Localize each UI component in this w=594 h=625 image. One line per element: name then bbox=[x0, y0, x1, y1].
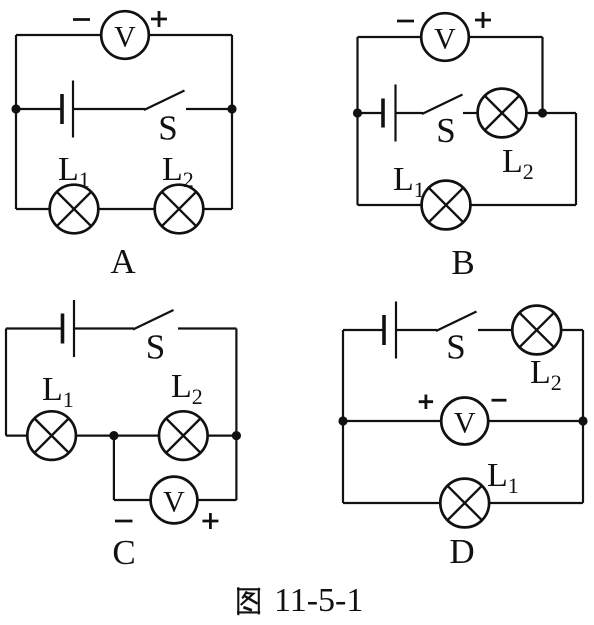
wire top-right (A) bbox=[149, 34, 232, 36]
wire voltmeter branch left horizontal (C) bbox=[114, 499, 151, 501]
svg-text:11-5-1: 11-5-1 bbox=[274, 582, 363, 619]
wire left vertical (D) bbox=[342, 330, 344, 503]
wire bottom-right (A) bbox=[203, 208, 232, 210]
wire bottom-left (A) bbox=[16, 208, 50, 210]
svg-text:L2: L2 bbox=[171, 368, 203, 409]
plus label (C voltmeter) bbox=[202, 513, 218, 529]
switch S (C) bbox=[133, 310, 174, 330]
svg-text:A: A bbox=[110, 242, 136, 281]
switch S (A) bbox=[144, 91, 185, 111]
svg-text:V: V bbox=[114, 21, 136, 54]
wire between lamps (A) bbox=[98, 208, 154, 210]
wire left vertical (B) bbox=[356, 37, 358, 205]
switch S (D) bbox=[436, 312, 477, 332]
lamp L2 (B) bbox=[478, 89, 527, 138]
svg-text:D: D bbox=[449, 532, 474, 571]
wire lamp-to-right (B) bbox=[526, 112, 576, 114]
wire switch-to-node (A) bbox=[186, 108, 232, 110]
minus label (D voltmeter) bbox=[492, 399, 507, 402]
wire middle-left (C) bbox=[6, 435, 27, 437]
node right junction (D) bbox=[578, 416, 587, 425]
lamp L1 (D) bbox=[440, 479, 489, 528]
lamp L2 (D) bbox=[512, 306, 561, 355]
wire top-left (D) bbox=[343, 329, 384, 331]
svg-text:L2: L2 bbox=[530, 354, 562, 395]
svg-text:L1: L1 bbox=[42, 371, 74, 412]
wire voltmeter branch left vertical (C) bbox=[113, 436, 115, 500]
battery BT-D bbox=[382, 315, 386, 345]
svg-text:S: S bbox=[158, 108, 177, 147]
wire bottom-left (D) bbox=[343, 502, 440, 504]
wire right lower vertical (B) bbox=[575, 113, 577, 205]
svg-text:S: S bbox=[446, 328, 465, 367]
node junction mid (C) bbox=[109, 431, 118, 440]
wire battery-to-switch (B) bbox=[396, 112, 424, 114]
wire switch-to-corner (C) bbox=[178, 327, 236, 329]
wire middle-left (B) bbox=[358, 112, 384, 114]
svg-text:B: B bbox=[451, 243, 474, 282]
wire switch-to-lamp (D) bbox=[478, 329, 512, 331]
wire right vertical (D) bbox=[582, 330, 584, 503]
wire middle-left (D) bbox=[343, 420, 441, 422]
plus label (A voltmeter) bbox=[151, 11, 167, 27]
battery BT-A bbox=[60, 94, 64, 124]
voltmeter U-B bbox=[421, 13, 469, 61]
node right junction (B) bbox=[538, 108, 547, 117]
wire switch-to-lamp (B) bbox=[463, 112, 478, 114]
svg-text:L1: L1 bbox=[487, 457, 519, 498]
wire right upper vertical (B) bbox=[541, 37, 543, 113]
wire left vertical (A) bbox=[15, 35, 17, 209]
wire left vertical (C) bbox=[5, 329, 7, 436]
wire top-right (B) bbox=[469, 36, 543, 38]
svg-text:V: V bbox=[434, 23, 456, 56]
minus label (A voltmeter) bbox=[73, 18, 90, 21]
node left junction (A) bbox=[11, 104, 20, 113]
lamp L1 (B) bbox=[422, 181, 471, 230]
plus label (B voltmeter) bbox=[475, 12, 491, 28]
svg-text:L2: L2 bbox=[162, 151, 194, 192]
wire middle-left (A) bbox=[16, 108, 62, 110]
node junction right (C) bbox=[232, 431, 241, 440]
voltmeter U-D bbox=[441, 398, 488, 445]
node left junction (B) bbox=[353, 108, 362, 117]
svg-text:V: V bbox=[163, 486, 185, 519]
wire battery-to-switch (A) bbox=[73, 108, 145, 110]
svg-text:S: S bbox=[146, 328, 165, 367]
svg-text:L2: L2 bbox=[502, 143, 534, 184]
plus label (D voltmeter) bbox=[419, 395, 433, 410]
lamp L2 (A) bbox=[155, 185, 204, 234]
wire between lamps (C) bbox=[76, 435, 159, 437]
node left junction (D) bbox=[338, 416, 347, 425]
lamp L1 (C) bbox=[27, 411, 76, 460]
wire voltmeter branch right vertical (C) bbox=[235, 436, 237, 500]
lamp L1 (A) bbox=[50, 185, 99, 234]
minus label (C voltmeter) bbox=[115, 520, 133, 523]
svg-text:L1: L1 bbox=[58, 151, 90, 192]
svg-text:C: C bbox=[112, 533, 135, 572]
voltmeter U-A bbox=[101, 11, 149, 59]
wire top-left (B) bbox=[358, 36, 422, 38]
svg-text:L1: L1 bbox=[393, 161, 425, 202]
svg-text:V: V bbox=[454, 407, 476, 440]
minus label (B voltmeter) bbox=[397, 20, 414, 23]
voltmeter U-C bbox=[151, 477, 198, 524]
node right junction (A) bbox=[227, 104, 236, 113]
wire battery-to-switch (C) bbox=[74, 327, 134, 329]
wire voltmeter branch right horizontal (C) bbox=[197, 499, 236, 501]
wire lamp-to-corner (D) bbox=[561, 329, 583, 331]
lamp L2 (C) bbox=[159, 411, 208, 460]
battery BT-C bbox=[61, 314, 65, 344]
switch S (B) bbox=[422, 95, 463, 115]
wire bottom-right (B) bbox=[471, 204, 576, 206]
wire bottom-left (B) bbox=[358, 204, 422, 206]
wire top-left (C) bbox=[6, 327, 63, 329]
wire battery-to-switch (D) bbox=[396, 329, 437, 331]
svg-text:S: S bbox=[436, 111, 455, 150]
battery BT-B bbox=[381, 99, 385, 128]
wire bottom-right (D) bbox=[489, 502, 583, 504]
wire middle-right (D) bbox=[488, 420, 583, 422]
wire right vertical (A) bbox=[231, 35, 233, 209]
hanzi TU (figure) glyph drawn as strokes bbox=[237, 587, 260, 615]
wire right vertical (C) bbox=[235, 329, 237, 436]
wire lamp2-to-right (C) bbox=[208, 435, 237, 437]
wire top-left (A) bbox=[16, 34, 101, 36]
